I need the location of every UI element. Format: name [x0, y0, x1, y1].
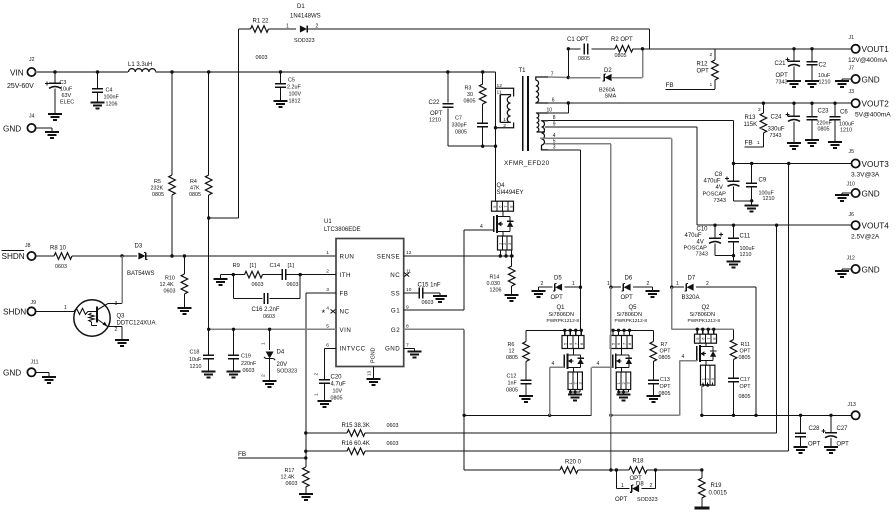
R13 value 115K: [744, 122, 758, 128]
svg-text:C20: C20: [331, 375, 343, 381]
U1 pin 12 number: [406, 250, 412, 256]
wire pin5 drop: [610, 144, 612, 287]
svg-text:220nF: 220nF: [241, 361, 257, 367]
D5 pin 2: [541, 281, 544, 287]
svg-text:R11: R11: [741, 342, 751, 348]
svg-text:1210: 1210: [840, 128, 852, 134]
R6 name: [508, 342, 515, 348]
junction J13net-D7: [754, 414, 757, 417]
wire C16 left segment: [233, 298, 262, 300]
svg-text:SS: SS: [391, 290, 400, 297]
wire T1 pin3 stub out: [548, 149, 580, 151]
svg-text:SOD323: SOD323: [294, 38, 315, 44]
wire T1 pin1 stub: [500, 121, 510, 123]
op-amp U1 body: [336, 239, 404, 367]
R5 footprint 0805: [152, 192, 164, 198]
junction VIN-R5: [170, 70, 173, 73]
svg-text:0805: 0805: [659, 391, 671, 397]
svg-text:G2: G2: [391, 327, 400, 334]
Q1 name: [557, 305, 566, 311]
R8 footprint 0603: [55, 264, 67, 270]
junction VIN-C4: [96, 70, 99, 73]
svg-text:R1 22: R1 22: [253, 19, 270, 25]
R7 footprint 0805: [659, 355, 671, 361]
ground at J11: [36, 372, 56, 383]
U1 pin 4 number: [326, 305, 329, 311]
net GND label J11: [3, 369, 21, 378]
wire FB vertical: [305, 293, 307, 458]
wire gate bus Q1 Q5: [464, 414, 591, 416]
Q2 part Si7806DN: [690, 312, 716, 318]
R18 name: [633, 459, 645, 465]
wire VOUT1 rail: [649, 48, 851, 50]
transistor Q5: [610, 330, 632, 389]
svg-text:R9: R9: [233, 263, 240, 269]
svg-text:0.030: 0.030: [487, 281, 501, 287]
wire T1 pin2 stub: [496, 123, 514, 128]
wire R1 to D1: [269, 28, 297, 30]
svg-text:OPT: OPT: [621, 295, 634, 301]
svg-text:R3: R3: [465, 86, 472, 92]
svg-text:12: 12: [497, 83, 503, 89]
svg-text:12.4K: 12.4K: [160, 282, 174, 288]
resistor R1: [251, 26, 269, 33]
R9 footprint 0603: [252, 282, 264, 288]
C23 value 220nF: [817, 121, 833, 127]
svg-text:GND: GND: [862, 190, 880, 199]
C17 footprint 0805: [739, 394, 751, 400]
junction Q5 drain stub 1: [611, 329, 614, 332]
D4 name: [277, 350, 285, 356]
R9 tag [1]: [250, 263, 257, 269]
connector J12: [852, 265, 860, 273]
C12 value 1nF: [508, 381, 518, 387]
svg-text:4V: 4V: [716, 185, 723, 191]
svg-text:3.3V@3A: 3.3V@3A: [851, 172, 880, 179]
wire J13 net: [702, 414, 852, 416]
junction D8 right riser: [654, 468, 657, 471]
U1 pin GND: [385, 346, 400, 353]
Q1 gate pin 4: [552, 361, 555, 367]
Q3 pin 1: [64, 305, 67, 311]
svg-text:4: 4: [552, 361, 555, 367]
C6 value 100uF: [839, 122, 855, 128]
svg-text:4: 4: [682, 354, 685, 360]
R15 footprint 0603: [387, 423, 399, 429]
svg-text:NC: NC: [340, 309, 350, 316]
svg-text:C16 2.2nF: C16 2.2nF: [252, 307, 280, 313]
junction Q2 source b: [706, 384, 709, 387]
junction J13net-C17: [732, 414, 735, 417]
U1 pin 1 number: [326, 250, 329, 256]
wire SS stub: [404, 292, 420, 294]
C22 value OPT: [430, 111, 443, 117]
ground at J4: [36, 128, 59, 138]
svg-text:0.0015: 0.0015: [709, 491, 728, 497]
R17 value 12.4K: [281, 475, 295, 481]
svg-text:1: 1: [757, 140, 760, 146]
R2 footprint 0805: [615, 53, 627, 59]
wire R4 top lead: [208, 72, 210, 175]
R11 footprint 0805: [739, 355, 751, 361]
U1 pin7 gnd stub: [404, 348, 415, 351]
svg-text:C1 OPT: C1 OPT: [567, 37, 589, 43]
svg-text:D1: D1: [297, 4, 305, 10]
C1 value label: [567, 37, 589, 43]
net GND label J4: [3, 125, 21, 134]
junction SENSE-Q4 s2: [504, 254, 507, 257]
C17 value OPT: [740, 384, 752, 390]
C18 footprint 1210: [190, 364, 202, 370]
resistor R17: [299, 458, 313, 500]
net GND label J12: [862, 266, 880, 275]
junction Q1 drain stub 3: [574, 329, 577, 332]
wire Q2 gate bus segment: [611, 414, 680, 416]
svg-text:VOUT4: VOUT4: [862, 222, 890, 231]
D7 name: [688, 276, 696, 282]
svg-text:DDTC124XUA: DDTC124XUA: [117, 321, 156, 327]
junction rail-C2: [810, 47, 813, 50]
svg-text:0603: 0603: [387, 441, 399, 447]
svg-text:0603: 0603: [286, 481, 298, 487]
svg-text:0805: 0805: [331, 396, 343, 402]
svg-text:R15 38.3K: R15 38.3K: [342, 423, 370, 429]
capacitor C19: [227, 329, 241, 377]
transformer T1 secondary winding B: [542, 121, 549, 150]
resistor R2: [615, 46, 633, 53]
wire Q2 node to R11: [733, 329, 735, 339]
svg-text:GND: GND: [385, 346, 400, 353]
svg-text:C7: C7: [455, 116, 462, 122]
C27 value OPT: [837, 442, 850, 448]
svg-text:10V: 10V: [333, 389, 343, 395]
junction pin5-Q2 gate bus: [609, 414, 612, 417]
svg-text:PWRPK1212-8: PWRPK1212-8: [615, 318, 648, 324]
svg-text:C23: C23: [818, 109, 830, 115]
C16 footprint 0603: [263, 314, 275, 320]
U1 pad PGND rotated: [371, 347, 377, 363]
D5 name: [554, 276, 562, 282]
svg-text:2: 2: [647, 281, 650, 287]
D2 footprint SMA: [605, 94, 617, 100]
svg-text:PGND: PGND: [371, 347, 377, 363]
junction D6-pin5 line: [609, 286, 612, 289]
wire R9 to C14: [263, 274, 283, 276]
wire R1 branch vertical: [238, 29, 240, 218]
wire C8 bottom to C9 bottom: [734, 200, 752, 202]
capacitor C21: [786, 49, 802, 87]
junction VOUT2-C24: [792, 102, 795, 105]
capacitor C7: [477, 123, 488, 126]
capacitor C8: [725, 164, 740, 201]
svg-text:VIN: VIN: [10, 69, 24, 78]
R14 name: [490, 275, 500, 281]
C20 footprint 0805: [331, 396, 343, 402]
C27 name: [837, 426, 849, 432]
wire pin3 line to Q1 drain: [579, 287, 581, 330]
wire R6 to C12: [525, 362, 527, 381]
U1 pin4 no-connect mark: [331, 309, 336, 313]
D2 name: [604, 68, 612, 74]
U1 pin VIN: [340, 327, 352, 334]
R19 value 0.0015: [709, 491, 728, 497]
svg-text:2: 2: [706, 281, 709, 287]
connector J9 label: [31, 300, 37, 306]
diode D5: [553, 284, 562, 291]
C18 value 10uF: [189, 357, 202, 363]
Q4 name: [497, 183, 506, 189]
R18 value OPT: [630, 476, 643, 482]
wire T1 pin6 stub out: [548, 102, 568, 104]
svg-text:7343: 7343: [776, 80, 788, 86]
Q3 name: [117, 314, 126, 320]
capacitor C22: [442, 104, 453, 107]
U1 pin 10 number: [406, 287, 412, 293]
junction Q2 source a: [701, 384, 704, 387]
svg-text:C4: C4: [106, 88, 113, 94]
svg-text:SMA: SMA: [605, 94, 617, 100]
resistor R11: [730, 340, 737, 360]
C20 pin 1: [314, 393, 320, 396]
U1 pin 2 number: [326, 269, 329, 275]
wire R15 line left: [306, 432, 347, 434]
C24 value 330uF: [768, 127, 785, 133]
wire VOUT4 rail: [697, 224, 852, 226]
svg-text:47K: 47K: [190, 186, 200, 192]
resistor R8: [54, 253, 72, 260]
svg-text:R8 10: R8 10: [50, 246, 67, 252]
svg-text:J12: J12: [847, 256, 855, 262]
C1 footprint 0805: [578, 56, 590, 62]
connector J13 label: [848, 402, 856, 408]
diode D6: [622, 284, 631, 291]
U1 pin INTVCC: [340, 346, 366, 353]
wire pin4 drop to D7: [671, 138, 673, 287]
connector J3 label: [849, 89, 855, 95]
C19 footprint 0603: [243, 368, 255, 374]
svg-text:OPT: OPT: [551, 295, 564, 301]
C3 value label: [60, 80, 67, 86]
connector J13: [852, 411, 860, 419]
net VOUT4 label: [862, 222, 890, 231]
svg-text:2.5V@2A: 2.5V@2A: [851, 234, 880, 241]
R7 value OPT: [660, 349, 672, 355]
wire VIN bus R3 to T1 aux: [483, 71, 496, 73]
T1 pin 1: [503, 117, 506, 123]
wire R11 to C17: [733, 360, 735, 379]
U1 pin 9 number: [406, 304, 409, 310]
svg-text:Si7806DN: Si7806DN: [617, 312, 643, 318]
ground at Q1 source: [568, 395, 582, 401]
U1 pin ITH: [340, 272, 351, 279]
capacitor C10: [709, 225, 723, 255]
wire C22 bottom lead: [447, 108, 449, 146]
R5 name: [154, 179, 161, 185]
connector J4: [27, 124, 35, 132]
junction VOUT3-R16 branch: [787, 162, 790, 165]
C16 value label: [252, 307, 280, 313]
wire VIN bus R4 to C22: [209, 71, 448, 73]
wire T1 pin10 stub out: [548, 112, 568, 114]
wire T1 to Q4 drain: [495, 146, 497, 201]
T1 pin 2: [503, 123, 506, 129]
wire D8 right riser: [655, 470, 657, 489]
capacitor C2: [805, 49, 819, 87]
capacitor C20: [317, 348, 331, 407]
svg-text:2: 2: [503, 123, 506, 129]
svg-text:R18: R18: [633, 459, 645, 465]
svg-text:C3: C3: [60, 80, 67, 86]
wire D8 left lead: [616, 488, 629, 490]
R4 footprint 0805: [189, 192, 201, 198]
svg-text:J7: J7: [849, 66, 855, 72]
net VOUT3 label: [862, 160, 890, 169]
junction VOUT2-C23: [810, 102, 813, 105]
Q4 part SI4494EY: [497, 190, 524, 196]
junction FB-R15: [304, 431, 307, 434]
capacitor C27: [822, 415, 839, 453]
transformer T1 primary winding: [536, 77, 548, 103]
R16 value label: [342, 441, 370, 447]
resistor R6: [523, 342, 530, 362]
junction pin6-pin10: [567, 101, 570, 104]
wire VIN bus J2 to C3: [36, 71, 55, 73]
wire Q1 gate lead: [550, 366, 565, 368]
D3 name: [135, 244, 143, 250]
wire C17 to J13 net: [733, 382, 735, 415]
wire T1 pin8 stub out: [548, 120, 734, 122]
svg-text:C28: C28: [809, 426, 821, 432]
C13 footprint 0805: [659, 391, 671, 397]
ground at D6: [646, 287, 660, 297]
svg-text:0603: 0603: [252, 282, 264, 288]
svg-text:ELEC: ELEC: [60, 100, 74, 106]
resistor R14: [505, 256, 519, 301]
svg-text:470uF: 470uF: [704, 179, 721, 185]
svg-text:3: 3: [326, 287, 329, 293]
resistor R7: [650, 342, 657, 362]
Q1 part Si7806DN: [549, 312, 575, 318]
transistor Q3: [74, 300, 110, 336]
C24 footprint 7343: [770, 133, 782, 139]
wire D6 right lead: [633, 286, 653, 288]
D5 value OPT: [551, 295, 564, 301]
svg-text:100V: 100V: [289, 92, 302, 98]
junction FB-R17: [304, 456, 307, 459]
svg-text:7343: 7343: [696, 252, 708, 258]
wire SENSE to R14 node: [404, 255, 514, 257]
junction R18-R19: [700, 468, 703, 471]
wire FB stub to R13: [745, 146, 764, 148]
C20 value 4.7uF: [331, 382, 347, 388]
svg-text:OPT: OPT: [740, 349, 752, 355]
R8 value label: [50, 246, 67, 252]
Q1 package PWRPK1212-8: [547, 318, 580, 324]
svg-text:PWRPK1212-8: PWRPK1212-8: [688, 318, 721, 324]
wire INTVCC stub: [324, 347, 336, 349]
svg-text:11: 11: [406, 269, 411, 275]
C8 name: [715, 172, 723, 178]
D1 pin 2: [316, 24, 319, 30]
R12 value OPT: [697, 69, 710, 75]
svg-text:1: 1: [676, 281, 679, 287]
junction VOUT2-C6: [833, 102, 836, 105]
svg-text:GND: GND: [3, 369, 21, 378]
T1 pin 3: [553, 144, 556, 150]
resistor R13: [760, 103, 767, 147]
wire FB stub to R12: [666, 88, 715, 90]
junction VOUT3-C8: [732, 162, 735, 165]
svg-text:6: 6: [326, 342, 329, 348]
resistor R19: [699, 470, 706, 507]
svg-text:0805: 0805: [659, 355, 671, 361]
wire Q2 gate lead: [680, 360, 697, 362]
wire J8 to R8: [36, 255, 54, 257]
svg-text:12: 12: [406, 250, 412, 256]
junction comp right: [299, 273, 302, 276]
wire R5 top lead: [171, 72, 173, 175]
wire D7 right lead: [696, 286, 756, 288]
junction R18 left: [615, 468, 618, 471]
R11 name: [741, 342, 751, 348]
svg-text:11: 11: [497, 89, 502, 95]
wire pin5 line to R20 node: [610, 415, 612, 470]
D4 pin 1: [261, 342, 267, 345]
R15 value label: [342, 423, 370, 429]
wire D7 left lead: [672, 286, 684, 288]
svg-text:5V@400mA: 5V@400mA: [855, 112, 891, 119]
svg-text:J9: J9: [31, 300, 37, 306]
svg-text:12V@400mA: 12V@400mA: [848, 57, 888, 64]
ground at D5: [532, 287, 546, 297]
wire pin9 drop to VOUT4: [696, 127, 698, 225]
C4 value 100nF: [104, 95, 120, 101]
svg-text:GND: GND: [862, 266, 880, 275]
svg-text:R2 OPT: R2 OPT: [611, 37, 633, 43]
diode D2: [603, 74, 612, 81]
R12 pin 1: [710, 82, 713, 88]
svg-text:63V: 63V: [62, 93, 72, 99]
wire Q1 drain node: [526, 329, 580, 331]
D8 pin 2: [650, 483, 653, 489]
resistor R15: [347, 430, 365, 437]
T1 pin 7: [551, 72, 554, 78]
C9 name: [759, 178, 767, 184]
Q5 gate pin 4: [597, 361, 600, 367]
svg-text:0805: 0805: [578, 56, 590, 62]
svg-text:4.7uF: 4.7uF: [331, 382, 347, 388]
svg-text:OPT: OPT: [697, 69, 710, 75]
svg-text:J2: J2: [29, 57, 35, 63]
wire FB pin to vertical: [306, 292, 336, 294]
svg-text:C27: C27: [837, 426, 849, 432]
net VOUT1 label: [862, 45, 890, 54]
connector J11 label: [31, 360, 39, 366]
svg-text:0603: 0603: [256, 55, 268, 61]
resistor R20: [560, 467, 578, 474]
C19 name: [241, 354, 251, 360]
C15 footprint 0603: [422, 300, 434, 306]
D1 part 1N4148WS: [290, 14, 321, 20]
inductor L1: [129, 69, 156, 72]
svg-text:J5: J5: [849, 149, 855, 155]
resistor R12: [712, 49, 719, 89]
wire G1 riser: [463, 230, 465, 310]
D2 part B260A: [599, 88, 616, 94]
svg-text:C5: C5: [288, 78, 295, 84]
resistor R3: [479, 84, 486, 104]
R20 value label: [565, 460, 582, 466]
